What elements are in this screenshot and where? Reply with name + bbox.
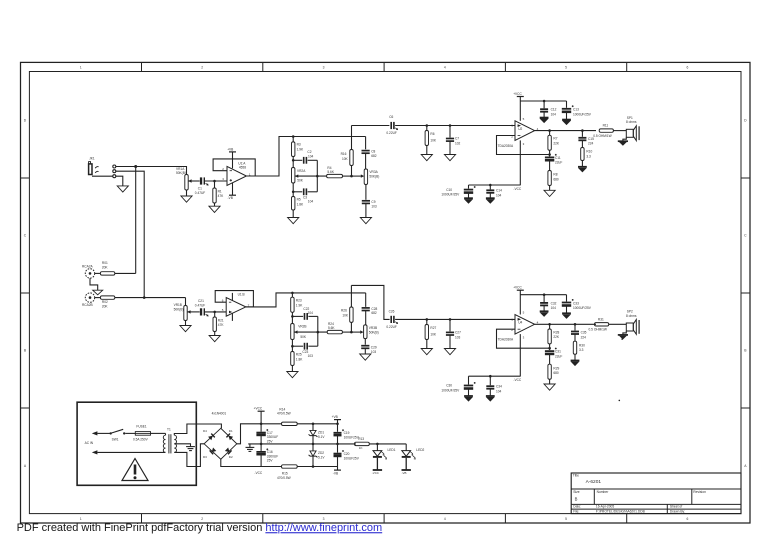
svg-text:104: 104 xyxy=(496,389,502,393)
svg-text:5.1V: 5.1V xyxy=(318,435,325,439)
svg-text:Revision: Revision xyxy=(693,490,706,494)
svg-text:VR3B: VR3B xyxy=(369,326,377,330)
capacitor C35 224 xyxy=(571,324,587,341)
wire R1 to ground xyxy=(214,203,216,206)
wire node B2 xyxy=(292,345,303,347)
node ZD2 bottom junction xyxy=(312,465,315,468)
switch SW1 xyxy=(110,429,126,441)
svg-text:16-Apr-2005: 16-Apr-2005 xyxy=(596,505,614,509)
speaker SP2 8 ohms xyxy=(626,310,639,335)
resistor R7 22K xyxy=(548,131,560,157)
ground under C30 xyxy=(464,396,473,401)
svg-text:0.22UF: 0.22UF xyxy=(386,325,397,329)
svg-text:-VCC: -VCC xyxy=(513,378,521,382)
svg-text:104: 104 xyxy=(308,154,314,158)
node +VB junction xyxy=(336,423,339,426)
wire C6 to U2 input xyxy=(395,125,515,127)
svg-text:104: 104 xyxy=(551,306,557,310)
wire C2 to right rail xyxy=(308,159,318,161)
wire RCA2A to R01 xyxy=(95,272,101,274)
svg-text:VR2B: VR2B xyxy=(298,325,306,329)
capacitor C15 224 xyxy=(578,131,594,148)
power -VCC at U4 xyxy=(513,334,521,382)
capacitor C26 0.22UF xyxy=(386,309,397,329)
svg-text:1000UF/25V: 1000UF/25V xyxy=(573,306,592,310)
svg-text:0.5 OHM/1W: 0.5 OHM/1W xyxy=(589,328,607,332)
ground under VR1A xyxy=(181,196,192,202)
node R3 top junction xyxy=(292,135,295,138)
svg-text:C12: C12 xyxy=(551,108,557,112)
diode D2 xyxy=(225,447,233,459)
wire R02 to VR1B xyxy=(115,298,186,306)
svg-text:C8: C8 xyxy=(371,149,375,153)
wire U1A output xyxy=(246,137,365,177)
resistor R11 0.5OHM/1W xyxy=(593,124,626,138)
svg-text:Date:: Date: xyxy=(573,505,581,509)
svg-text:0.5A 250V: 0.5A 250V xyxy=(133,438,149,442)
ground under SP1 xyxy=(618,137,628,145)
capacitor C16 3300UF 25V xyxy=(256,444,278,467)
svg-text:2: 2 xyxy=(201,65,203,69)
svg-text:-VCC: -VCC xyxy=(254,471,262,475)
speaker SP1 8 ohms xyxy=(626,116,639,141)
svg-text:R01: R01 xyxy=(102,261,108,265)
svg-text:22uF: 22uF xyxy=(555,354,562,358)
svg-text:D2: D2 xyxy=(229,455,233,459)
svg-text:C20: C20 xyxy=(344,452,350,456)
ground under C12 xyxy=(540,118,549,123)
connector JK1 xyxy=(89,157,95,175)
ground under C10 xyxy=(464,198,473,203)
node U2 feedback-R7 junction xyxy=(548,153,551,156)
ground mid rail xyxy=(246,444,255,452)
svg-text:Number: Number xyxy=(597,490,610,494)
svg-text:6: 6 xyxy=(686,517,688,521)
wire RCA2B to R02 xyxy=(95,297,101,299)
svg-text:SP1: SP1 xyxy=(627,116,633,120)
node RCA2B-jack junction xyxy=(143,296,146,299)
svg-text:Sheet of: Sheet of xyxy=(670,505,682,509)
svg-text:+VB: +VB xyxy=(227,147,233,151)
power +VB supply xyxy=(332,415,341,424)
svg-text:-VCC: -VCC xyxy=(372,471,379,475)
wire SW1 to FUSE1 xyxy=(125,432,135,434)
wire secondary top to bridge xyxy=(174,424,221,435)
zener ZD1 5.1V xyxy=(309,424,326,444)
wire VR2B wiper row xyxy=(294,331,327,333)
svg-text:103: 103 xyxy=(308,354,314,358)
svg-text:8 ohms: 8 ohms xyxy=(626,120,637,124)
wire mid rail xyxy=(248,443,356,445)
ground under R21 xyxy=(209,336,220,342)
resistor R25 1.8K xyxy=(291,346,304,371)
wire to RCA2A input xyxy=(135,167,137,274)
transformer T1 xyxy=(163,427,176,453)
svg-text:Size: Size xyxy=(573,490,580,494)
svg-text:F:\PROTEL\DESIGN\A6201.DDB: F:\PROTEL\DESIGN\A6201.DDB xyxy=(596,510,646,514)
svg-text:25V: 25V xyxy=(267,459,274,463)
svg-text:5: 5 xyxy=(565,517,567,521)
title block grid xyxy=(571,473,741,514)
svg-text:D4: D4 xyxy=(203,429,207,433)
node R6 junction xyxy=(426,124,429,127)
svg-text:1.8K: 1.8K xyxy=(297,202,304,206)
wire secondary center tap xyxy=(174,444,190,447)
node C17-C16 junction xyxy=(260,443,263,446)
node ZD1 top junction xyxy=(312,423,315,426)
svg-text:C26: C26 xyxy=(389,309,395,313)
power +VB at U1A xyxy=(227,147,236,168)
svg-text:R6: R6 xyxy=(430,132,434,136)
wire C22 to rail xyxy=(308,315,317,317)
wire bridge positive xyxy=(237,424,282,444)
resistor R02 20K xyxy=(100,296,114,309)
svg-text:FUSE1: FUSE1 xyxy=(136,424,147,428)
stray mark xyxy=(619,400,621,402)
wire AC neutral xyxy=(97,451,165,453)
wire -VCC rail ch2 xyxy=(469,375,521,377)
wire U4 output xyxy=(535,323,596,325)
svg-text:104: 104 xyxy=(308,200,314,204)
node C1-R1 junction xyxy=(213,180,216,183)
capacitor C20 100UF25V xyxy=(334,444,360,467)
svg-text:TDA2030A: TDA2030A xyxy=(498,338,514,342)
svg-text:103: 103 xyxy=(371,350,377,354)
svg-text:47K: 47K xyxy=(218,323,225,327)
capacitor C19 100UF25V xyxy=(334,424,360,444)
diode D1 xyxy=(226,429,233,441)
wire U1B output xyxy=(246,293,366,307)
svg-text:SW1: SW1 xyxy=(112,438,119,442)
ground under VR1B xyxy=(180,326,191,332)
svg-text:20K: 20K xyxy=(102,266,109,270)
wire R13 to LEDs xyxy=(369,443,406,445)
svg-text:C9: C9 xyxy=(371,200,375,204)
svg-text:104: 104 xyxy=(308,311,314,315)
svg-text:VR3A: VR3A xyxy=(369,170,378,174)
svg-text:103: 103 xyxy=(455,335,461,339)
node C30 junction xyxy=(489,375,492,378)
capacitor C21 0.47UF xyxy=(195,299,208,316)
resistor R29 680 xyxy=(548,364,560,384)
svg-text:22K: 22K xyxy=(553,335,560,339)
LED LED2 xyxy=(402,444,425,459)
svg-text:50K: 50K xyxy=(297,178,304,182)
resistor R8 680 xyxy=(548,171,559,191)
svg-text:5.6K: 5.6K xyxy=(327,170,334,174)
title block texts xyxy=(573,474,706,514)
svg-text:C35: C35 xyxy=(581,331,587,335)
node C21-R21 junction xyxy=(213,311,216,314)
svg-text:47K: 47K xyxy=(218,194,225,198)
resistor R21 47K xyxy=(213,312,224,332)
node +VCC junction xyxy=(260,423,263,426)
svg-text:-VB: -VB xyxy=(333,472,338,476)
wire node B xyxy=(293,191,302,193)
wire U2 feedback loop xyxy=(497,136,550,155)
ground under R25 xyxy=(287,372,298,378)
svg-text:C28: C28 xyxy=(371,307,377,311)
svg-text:1: 1 xyxy=(80,65,82,69)
border frame with zone ticks xyxy=(21,62,751,523)
ground under R1 xyxy=(209,206,220,212)
bridge rectifier diamond xyxy=(204,428,237,459)
op-amp U2 TDA2030A xyxy=(498,117,539,148)
svg-text:4: 4 xyxy=(444,517,446,521)
capacitor C9 103 xyxy=(362,200,377,218)
svg-text:R26: R26 xyxy=(341,309,347,313)
label bridge diodes xyxy=(212,411,227,415)
resistor R01 20K xyxy=(100,261,114,275)
svg-text:C6: C6 xyxy=(389,115,393,119)
svg-text:102: 102 xyxy=(455,141,461,145)
frame zone labels xyxy=(24,65,747,520)
svg-text:R28: R28 xyxy=(553,330,559,334)
wire AC line xyxy=(97,432,110,434)
svg-text:R11: R11 xyxy=(603,124,609,128)
svg-text:104: 104 xyxy=(551,112,557,116)
connector RCA2B xyxy=(82,293,95,307)
svg-text:C7: C7 xyxy=(455,137,459,141)
capacitor C6 0.22UF xyxy=(386,115,397,135)
power +VCC at U2 xyxy=(513,92,524,121)
wire C1 to U1A pin3 xyxy=(205,181,228,188)
wire treble feed xyxy=(352,125,390,127)
svg-text:50K(B): 50K(B) xyxy=(176,171,186,175)
svg-text:0.47UF: 0.47UF xyxy=(195,191,206,195)
wire node A2 xyxy=(291,315,303,318)
svg-text:8 ohms: 8 ohms xyxy=(626,314,637,318)
power supply enclosure box xyxy=(77,402,196,485)
node U4 feedback junction xyxy=(548,323,551,326)
capacitor C3 104 xyxy=(303,188,313,203)
capacitor C11 22uF xyxy=(545,154,562,171)
wire C26 to U4 input xyxy=(395,318,515,320)
warning symbol xyxy=(122,459,148,481)
power -VCC at U2 xyxy=(513,140,521,191)
node C7 junction xyxy=(449,124,452,127)
resistor R24 5.6K xyxy=(327,322,351,334)
svg-text:22uF: 22uF xyxy=(555,161,562,165)
ground under SP2 xyxy=(618,331,628,339)
wire -VCC rail ch1 xyxy=(469,184,521,186)
potentiometer VR1B 50K(B) xyxy=(174,303,191,320)
capacitor C27 103 xyxy=(446,319,461,348)
svg-text:+VCC: +VCC xyxy=(254,406,263,410)
capacitor C1 0.47UF xyxy=(195,177,208,194)
ground under R29 xyxy=(544,384,555,390)
resistor R10 3.3 xyxy=(581,148,593,167)
svg-text:R3: R3 xyxy=(297,143,301,147)
capacitor C13 1000UF/25V xyxy=(562,101,592,119)
wire VR1B wiper to C21 xyxy=(187,311,200,313)
svg-text:50K(B): 50K(B) xyxy=(369,175,379,179)
svg-text:A-6201: A-6201 xyxy=(586,479,602,485)
svg-text:+VCC: +VCC xyxy=(513,286,522,290)
node ZD1 bottom junction xyxy=(312,443,315,446)
svg-text:103: 103 xyxy=(371,204,377,208)
svg-text:10K: 10K xyxy=(430,332,437,336)
wire secondary bottom to bridge xyxy=(174,444,204,467)
wire VR2B ends xyxy=(291,316,293,346)
node wiper rail junction 2 xyxy=(317,331,320,334)
resistor R14 470/0.5W xyxy=(277,407,338,425)
ground under C32 xyxy=(540,311,549,316)
ground jack sleeve xyxy=(117,186,128,192)
node C27 junction xyxy=(449,318,452,321)
svg-text:R8: R8 xyxy=(553,173,557,177)
ground under C34 xyxy=(486,396,495,401)
power -VB supply xyxy=(333,467,341,476)
svg-text:470/0.5W: 470/0.5W xyxy=(277,476,291,480)
op-amp U1:B 4558 xyxy=(222,292,250,316)
wire VR1A wiper to C1 xyxy=(188,180,200,182)
node C32 junction xyxy=(543,293,546,296)
svg-text:PDF created with FinePrint pdf: PDF created with FinePrint pdfFactory tr… xyxy=(17,522,383,534)
svg-text:R25: R25 xyxy=(296,353,302,357)
label -VCC rail xyxy=(254,471,262,475)
node R5 top junction xyxy=(292,191,295,194)
node zobel junction ch1 xyxy=(581,129,584,132)
wire VR2A ends xyxy=(292,160,294,192)
svg-text:2: 2 xyxy=(201,517,203,521)
svg-text:D1: D1 xyxy=(229,429,233,433)
ground under R5 xyxy=(288,218,299,224)
svg-text:0.47UF: 0.47UF xyxy=(195,303,206,307)
ground under R27 xyxy=(421,349,432,355)
ground under C7 xyxy=(444,155,455,161)
zener ZD2 5.1V xyxy=(309,444,326,467)
svg-text:RCA2A: RCA2A xyxy=(82,265,94,269)
svg-text:R1: R1 xyxy=(218,189,222,193)
capacitor C32 104 xyxy=(540,295,557,311)
node R4-R16 junction xyxy=(350,175,353,178)
JK1 contacts xyxy=(113,165,116,178)
svg-text:22K: 22K xyxy=(553,141,560,145)
node zobel junction ch2 xyxy=(574,323,577,326)
capacitor C23 103 xyxy=(302,343,313,358)
capacitor C17 3300UF 25V xyxy=(256,424,278,444)
svg-text:C27: C27 xyxy=(455,331,461,335)
svg-text:1.9K: 1.9K xyxy=(297,147,304,151)
power +VCC at U4 xyxy=(513,286,524,315)
svg-text:+VB: +VB xyxy=(332,415,338,419)
svg-text:1000UF/25V: 1000UF/25V xyxy=(441,389,460,393)
resistor R3 1.9K xyxy=(292,137,305,161)
ground under R6 xyxy=(421,155,432,161)
svg-text:3: 3 xyxy=(323,517,325,521)
svg-text:C13: C13 xyxy=(573,108,579,112)
potentiometer VR2B 50K xyxy=(291,324,307,340)
svg-text:AC IN: AC IN xyxy=(85,441,94,445)
capacitor C2 104 xyxy=(304,150,314,164)
svg-text:R21: R21 xyxy=(218,318,224,322)
node R25 top junction xyxy=(291,345,294,348)
AC plug prong bottom xyxy=(92,450,98,454)
node C12 junction xyxy=(543,100,546,103)
svg-text:50K: 50K xyxy=(300,335,307,339)
wire cap rail 2 xyxy=(317,316,319,346)
resistor R30 3.3 xyxy=(573,341,585,360)
svg-text:C33: C33 xyxy=(573,301,579,305)
svg-text:50K(B): 50K(B) xyxy=(174,307,184,311)
svg-text:R13: R13 xyxy=(358,437,364,441)
svg-text:25V: 25V xyxy=(267,439,274,443)
svg-text:R31: R31 xyxy=(598,317,604,321)
svg-text:680: 680 xyxy=(553,177,559,181)
ground under C13 xyxy=(562,120,571,125)
svg-text:U4: U4 xyxy=(518,321,522,325)
svg-text:470/0.5W: 470/0.5W xyxy=(277,412,291,416)
ground under C14 xyxy=(486,198,495,203)
svg-text:10K: 10K xyxy=(342,157,349,161)
svg-text:1.8K: 1.8K xyxy=(296,357,303,361)
node R27 junction xyxy=(426,318,429,321)
wire C23 to rail xyxy=(308,345,317,347)
resistor R31 0.5OHM/1W xyxy=(589,317,627,331)
capacitor C12 104 xyxy=(540,101,557,117)
svg-text:R10: R10 xyxy=(586,150,592,154)
node C19-C20 junction xyxy=(336,443,339,446)
wire treble feed 2 xyxy=(351,285,389,319)
svg-text:5.6K: 5.6K xyxy=(328,326,335,330)
svg-text:TDA2030A: TDA2030A xyxy=(498,144,514,148)
wire U4 feedback loop xyxy=(497,329,550,348)
ground under R8 xyxy=(544,190,555,196)
svg-text:Drawn By:: Drawn By: xyxy=(670,510,685,514)
svg-text:D3: D3 xyxy=(203,455,207,459)
node jack-RCA2A junction xyxy=(134,165,137,168)
wire VR1B to ground xyxy=(185,321,187,326)
wire C3 to right rail xyxy=(308,191,318,193)
wire JK1 ring to RCA2B net xyxy=(116,171,144,297)
node R23 top junction xyxy=(291,292,294,295)
resistor R23 1.9K xyxy=(291,293,304,317)
capacitor C22 104 xyxy=(303,307,313,320)
wire R01 to channel1 net xyxy=(115,272,136,274)
pin U1B power stubs xyxy=(231,293,233,321)
svg-text:Title: Title xyxy=(573,474,579,478)
wire FUSE1 to T1 xyxy=(151,433,166,435)
wire U1B feedback loop xyxy=(215,291,253,307)
svg-text:C14: C14 xyxy=(496,189,502,193)
svg-text:C34: C34 xyxy=(496,385,502,389)
connector RCA2A xyxy=(82,265,95,278)
resistor R16 10K xyxy=(341,126,354,177)
ground under R10 xyxy=(578,167,587,172)
svg-text:R5: R5 xyxy=(297,198,301,202)
svg-text:5: 5 xyxy=(565,65,567,69)
svg-text:224: 224 xyxy=(588,142,594,146)
svg-text:224: 224 xyxy=(581,335,587,339)
wire R21 to ground xyxy=(214,332,216,336)
svg-text:-VB: -VB xyxy=(402,471,407,475)
node U4 feedback-R28 junction xyxy=(548,347,551,350)
capacitor C33 1000UF/25V xyxy=(562,295,592,313)
svg-text:4: 4 xyxy=(444,65,446,69)
capacitor C30 1000UF/25V xyxy=(441,376,475,396)
svg-text:10K: 10K xyxy=(430,139,437,143)
svg-text:-VB: -VB xyxy=(228,196,233,200)
potentiometer VR3A 50K(B) xyxy=(364,169,379,185)
ground under C29 xyxy=(360,354,371,360)
svg-text:SP2: SP2 xyxy=(627,310,633,314)
resistor R28 22K xyxy=(548,324,560,350)
svg-text:ZD2: ZD2 xyxy=(318,451,324,455)
resistor R1 47K xyxy=(213,188,224,203)
diode D4 xyxy=(203,429,215,441)
svg-text:100UF25V: 100UF25V xyxy=(344,456,360,460)
